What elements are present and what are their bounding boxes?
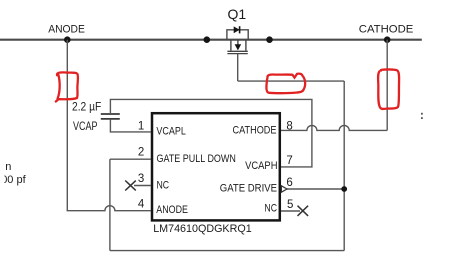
pin 5 no-connect X <box>298 206 309 216</box>
node: anode junction <box>64 36 71 43</box>
svg-text:n: n <box>5 161 11 173</box>
svg-text:GATE DRIVE: GATE DRIVE <box>220 183 277 195</box>
svg-text:ANODE: ANODE <box>156 204 188 216</box>
node: gate drive junction <box>341 186 347 192</box>
wire: gate pull down vertical <box>109 159 111 250</box>
annotation red oval around gate wire <box>266 74 305 94</box>
svg-text:GATE PULL DOWN: GATE PULL DOWN <box>157 153 236 165</box>
wire: cathode vertical drop <box>386 40 388 131</box>
svg-text:LM74610QDGKRQ1: LM74610QDGKRQ1 <box>153 223 252 235</box>
capacitor C1 top plate <box>101 113 120 115</box>
wire: anode vertical drop <box>66 40 68 211</box>
annotation red box around anode wire <box>56 72 78 101</box>
svg-text:7: 7 <box>286 155 292 167</box>
transistor Q1 body diode <box>227 26 248 40</box>
label 00 pf (cut-off text left edge) <box>1 174 26 186</box>
wire: gate bottom return <box>110 250 344 252</box>
svg-text:CATHODE: CATHODE <box>359 23 414 35</box>
wire: gate riser down right side <box>343 81 345 251</box>
svg-text:VCAPH: VCAPH <box>245 160 277 172</box>
svg-text:2.2 µF: 2.2 µF <box>72 100 101 114</box>
IC U1 body LM74610 <box>152 113 280 220</box>
svg-text:4: 4 <box>138 199 145 211</box>
svg-text:NC: NC <box>264 202 277 214</box>
node: Q1 drain junction <box>266 36 273 43</box>
svg-text:8: 8 <box>286 121 292 133</box>
wire: cap top to VCAPH riser and pin 7 <box>110 99 312 166</box>
wire: cap bottom to pin 1 <box>110 119 150 132</box>
svg-text:NC: NC <box>157 179 170 191</box>
svg-text:Q1: Q1 <box>228 6 247 22</box>
wire: pin 8 cathode wire with two hops <box>281 125 387 130</box>
svg-text:5: 5 <box>287 199 293 211</box>
svg-text:CATHODE: CATHODE <box>233 125 277 137</box>
svg-text:1: 1 <box>138 120 144 132</box>
node: Q1 source junction <box>204 36 211 43</box>
pin 5 NC stub <box>281 210 300 212</box>
svg-text:VCAPL: VCAPL <box>156 126 186 138</box>
pin 3 no-connect X <box>125 181 136 191</box>
wire: anode to pin 4 with hop over gate vertical <box>67 206 151 211</box>
pin 3 NC stub <box>134 185 151 187</box>
wire: gate net horizontal to riser <box>238 80 345 82</box>
transistor Q1 mosfet structure <box>227 40 247 53</box>
wire: Q1 gate lead down <box>237 54 239 81</box>
annotation red oval around cathode wire <box>378 69 399 109</box>
wire: pin 2 gate pull down stub <box>110 158 151 160</box>
svg-text:ANODE: ANODE <box>48 23 85 35</box>
svg-text:3: 3 <box>138 173 144 185</box>
pin 6 output triangle marker <box>281 186 287 192</box>
wire: pin 6 gate drive stub <box>287 188 344 190</box>
svg-text:VCAP: VCAP <box>73 121 98 133</box>
node: cathode junction <box>384 36 391 43</box>
svg-text:2: 2 <box>138 147 144 159</box>
wire: top rail anode to cathode <box>0 39 422 41</box>
colon mark right edge <box>421 113 423 119</box>
capacitor C1 bottom plate <box>101 118 120 120</box>
svg-text:00 pf: 00 pf <box>1 174 26 186</box>
svg-text:6: 6 <box>286 177 292 189</box>
